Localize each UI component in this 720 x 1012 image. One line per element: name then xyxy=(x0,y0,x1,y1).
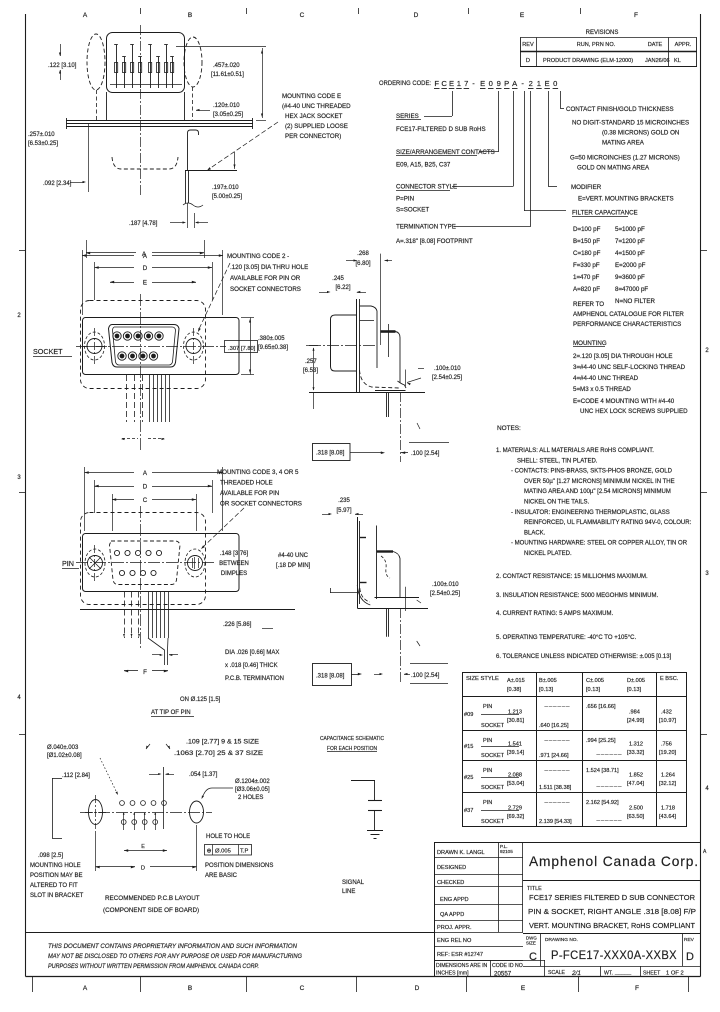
svg-text:20557: 20557 xyxy=(494,971,512,978)
svg-text:1.852: 1.852 xyxy=(629,773,643,779)
svg-text:C±.005: C±.005 xyxy=(586,678,604,684)
ground xyxy=(367,830,383,832)
svg-text:PURPOSES WITHOUT WRITTEN PERMI: PURPOSES WITHOUT WRITTEN PERMISSION FROM… xyxy=(48,963,259,970)
drawing number row xyxy=(540,934,542,967)
pin side bracket plate xyxy=(357,517,359,608)
svg-text:3: 3 xyxy=(705,571,709,577)
svg-text:1.264: 1.264 xyxy=(661,773,675,779)
svg-text:0: 0 xyxy=(489,79,493,88)
svg-text:SCALE: SCALE xyxy=(548,970,566,976)
svg-text:.054 [1.37]: .054 [1.37] xyxy=(189,772,218,778)
svg-text:PROJ. APPR.: PROJ. APPR. xyxy=(437,925,472,931)
svg-text:DIMPLES: DIMPLES xyxy=(221,571,247,577)
svg-text:KL: KL xyxy=(674,58,681,64)
svg-text:SHEET: SHEET xyxy=(643,971,661,977)
dim .100 2.54 socket side xyxy=(409,442,449,444)
svg-text:4: 4 xyxy=(17,695,21,701)
svg-text:B: B xyxy=(188,12,192,19)
svg-text:[47.04]: [47.04] xyxy=(627,781,645,787)
svg-text:.092 [2.34]: .092 [2.34] xyxy=(43,181,72,187)
svg-text:OR SOCKET CONNECTORS: OR SOCKET CONNECTORS xyxy=(220,501,302,508)
title block xyxy=(434,842,701,844)
svg-text:PIN: PIN xyxy=(483,704,492,710)
svg-text:MATING AREA: MATING AREA xyxy=(602,140,645,147)
pin bracket dashed outline xyxy=(81,513,206,605)
socket D-sub cutout xyxy=(109,325,180,368)
svg-text:S=SOCKET: S=SOCKET xyxy=(396,207,429,214)
svg-text:D: D xyxy=(141,866,145,872)
svg-text:SOCKET: SOCKET xyxy=(481,753,505,759)
svg-text:3=#4-40 UNC SELF-LOCKING THREA: 3=#4-40 UNC SELF-LOCKING THREAD xyxy=(573,364,686,371)
svg-text:MATING AREA AND 100µ" [2.54 MI: MATING AREA AND 100µ" [2.54 MICRONS] MIN… xyxy=(524,489,671,495)
svg-text:VERT. MOUNTING BRACKET, RoHS C: VERT. MOUNTING BRACKET, RoHS COMPLIANT xyxy=(529,921,695,930)
svg-text:NO DIGIT-STANDARD 15 MICROINCH: NO DIGIT-STANDARD 15 MICROINCHES xyxy=(572,120,689,127)
svg-text:[32.12]: [32.12] xyxy=(659,781,677,787)
svg-text:1: 1 xyxy=(457,79,461,88)
svg-text:SOCKET: SOCKET xyxy=(481,819,505,825)
svg-text:DIMENSIONS ARE IN: DIMENSIONS ARE IN xyxy=(436,963,488,969)
socket flange xyxy=(83,318,240,375)
pin side contact squiggle xyxy=(381,556,390,578)
pcb left bracket xyxy=(52,778,54,838)
svg-text:DRAWING NO.: DRAWING NO. xyxy=(545,937,578,943)
svg-text:[19.20]: [19.20] xyxy=(659,750,677,756)
dim E socket top xyxy=(110,282,134,284)
pins view1 xyxy=(116,45,118,88)
title block left column rows xyxy=(434,857,523,859)
svg-text:PIN & SOCKET, RIGHT ANGLE .318: PIN & SOCKET, RIGHT ANGLE .318 [8.08] F/… xyxy=(528,907,696,916)
svg-text:1.718: 1.718 xyxy=(661,806,675,812)
svg-text:F: F xyxy=(143,669,147,676)
svg-text:PRODUCT DRAWING (ELM-12000): PRODUCT DRAWING (ELM-12000) xyxy=(543,58,633,64)
note pcb termination pin xyxy=(160,654,163,656)
svg-text:[2.54±0.25]: [2.54±0.25] xyxy=(432,375,462,381)
svg-text:4: 4 xyxy=(705,786,709,792)
svg-text:SIZE/ARRANGEMENT CONTACTS: SIZE/ARRANGEMENT CONTACTS xyxy=(396,149,495,156)
svg-text:SOCKET: SOCKET xyxy=(33,347,63,356)
svg-text:#15: #15 xyxy=(464,744,473,750)
pin centerlines xyxy=(76,562,215,564)
wire to capacitor xyxy=(374,781,376,800)
svg-text:[0.38]: [0.38] xyxy=(507,687,521,693)
shell outline view1 xyxy=(107,33,185,93)
svg-text:Amphenol Canada Corp.: Amphenol Canada Corp. xyxy=(529,853,699,869)
svg-text:A: A xyxy=(83,985,88,992)
svg-text:[0.13]: [0.13] xyxy=(539,687,553,693)
svg-text:ON Ø.125 [1.5]: ON Ø.125 [1.5] xyxy=(180,697,221,703)
svg-text:E: E xyxy=(449,79,454,88)
dim D socket top xyxy=(94,262,96,300)
svg-text:5=1000 pF: 5=1000 pF xyxy=(615,226,645,233)
svg-text:REV: REV xyxy=(684,937,695,943)
svg-text:.257: .257 xyxy=(305,359,317,365)
pin mounting hole right xyxy=(188,556,203,571)
socket side shell xyxy=(360,306,378,368)
svg-text:E=VERT. MOUNTING BRACKETS: E=VERT. MOUNTING BRACKETS xyxy=(578,196,674,203)
svg-text:AT TIP OF PIN: AT TIP OF PIN xyxy=(151,710,191,716)
socket side foot xyxy=(360,370,400,388)
svg-text:LINE: LINE xyxy=(342,889,355,895)
svg-text:REF: ESR #12747: REF: ESR #12747 xyxy=(437,952,483,958)
svg-text:.1063 [2.70] 25 & 37 SIZE: .1063 [2.70] 25 & 37 SIZE xyxy=(174,750,263,757)
flange plate edge view1 xyxy=(66,120,253,122)
svg-text:[39.14]: [39.14] xyxy=(507,750,525,756)
svg-text:7: 7 xyxy=(464,79,468,88)
socket side body xyxy=(331,315,358,371)
svg-text:2/1: 2/1 xyxy=(571,970,581,977)
svg-text:AMPHENOL CATALOGUE FOR FILTER: AMPHENOL CATALOGUE FOR FILTER xyxy=(573,311,684,318)
dim A pin top xyxy=(84,467,86,531)
svg-text:ENG REL NO: ENG REL NO xyxy=(437,938,472,944)
svg-text:HEX JACK SOCKET: HEX JACK SOCKET xyxy=(285,113,343,120)
svg-text:- INSULATOR: ENGINEERING THER: - INSULATOR: ENGINEERING THERMOPLASTIC, … xyxy=(511,510,670,516)
svg-text:9=3600 pF: 9=3600 pF xyxy=(615,274,645,281)
svg-text:2 HOLES: 2 HOLES xyxy=(238,795,263,801)
svg-text:P: P xyxy=(504,79,509,88)
socket mounting hole left xyxy=(87,339,102,354)
svg-text:MOUNTING: MOUNTING xyxy=(573,340,607,347)
svg-text:SIZE STYLE: SIZE STYLE xyxy=(466,676,499,682)
svg-text:DATE: DATE xyxy=(648,42,663,48)
svg-text:BETWEEN: BETWEEN xyxy=(219,561,249,567)
svg-text:[63.50]: [63.50] xyxy=(627,814,645,820)
svg-text:A: A xyxy=(143,253,148,260)
svg-text:.226 [5.86]: .226 [5.86] xyxy=(223,622,252,628)
svg-text:- CONTACTS: PINS-BRASS, SKTS-: - CONTACTS: PINS-BRASS, SKTS-PHOS BRONZE… xyxy=(511,469,673,475)
svg-text:DRAWN K. LANGL: DRAWN K. LANGL xyxy=(437,850,485,856)
svg-text:.120±.010: .120±.010 xyxy=(213,103,240,109)
svg-text:ALTERED TO FIT: ALTERED TO FIT xyxy=(30,883,78,889)
svg-text:.148 [3.76]: .148 [3.76] xyxy=(220,551,249,557)
svg-text:.994 [25.25]: .994 [25.25] xyxy=(586,738,616,744)
svg-text:OVER 50µ" [1.27 MICRONS] MINIM: OVER 50µ" [1.27 MICRONS] MINIMUM NICKEL … xyxy=(524,479,675,485)
pcb small holes top row xyxy=(120,801,125,806)
pin contacts bottom row xyxy=(119,570,124,575)
proprietary note box xyxy=(26,932,435,934)
svg-text:CONNECTOR STYLE: CONNECTOR STYLE xyxy=(396,184,457,191)
svg-text:[Ø1.02±0.08]: [Ø1.02±0.08] xyxy=(47,753,82,759)
svg-text:E: E xyxy=(141,844,145,850)
svg-text:[0.13]: [0.13] xyxy=(586,687,600,693)
svg-text:[10.97]: [10.97] xyxy=(659,718,677,724)
svg-text:[0.13]: [0.13] xyxy=(627,687,641,693)
svg-text:[11.61±0.51]: [11.61±0.51] xyxy=(211,72,244,78)
svg-text:4=#4-40 UNC THREAD: 4=#4-40 UNC THREAD xyxy=(573,375,639,382)
socket tails xyxy=(126,375,128,422)
svg-text:PIN: PIN xyxy=(483,738,492,744)
svg-text:D: D xyxy=(686,951,694,963)
svg-text:E09, A15, B25, C37: E09, A15, B25, C37 xyxy=(396,162,451,169)
dim .100 pin side bottom xyxy=(410,663,448,665)
svg-text:------: ------ xyxy=(544,704,570,710)
dim D pin top xyxy=(94,480,96,513)
svg-text:RUN, PRN NO.: RUN, PRN NO. xyxy=(577,42,616,48)
svg-text:.971 [24.66]: .971 [24.66] xyxy=(539,753,569,759)
socket contacts top row xyxy=(113,332,121,340)
svg-text:[2.54±0.25]: [2.54±0.25] xyxy=(430,591,460,597)
mounting bushing right (dashed) view1 xyxy=(184,37,202,87)
svg-text:FOR EACH POSITION: FOR EACH POSITION xyxy=(327,746,377,752)
mounting bushing left (dashed) view1 xyxy=(87,34,105,90)
svg-text:[24.99]: [24.99] xyxy=(627,718,645,724)
svg-text:PIN: PIN xyxy=(483,800,492,806)
svg-text:3: 3 xyxy=(17,475,21,481)
svg-text:2.088: 2.088 xyxy=(508,773,522,779)
wire signal xyxy=(351,780,375,782)
svg-text:REV: REV xyxy=(522,42,534,48)
svg-text:[5.00±0.25]: [5.00±0.25] xyxy=(212,194,242,200)
socket tail span arrows xyxy=(122,438,138,440)
pin side body front face xyxy=(376,526,378,600)
svg-text:PERFORMANCE CHARACTERISTICS: PERFORMANCE CHARACTERISTICS xyxy=(573,321,681,328)
svg-text:Ø.005: Ø.005 xyxy=(215,849,231,855)
socket side tails below pcb xyxy=(386,392,388,417)
svg-text:C: C xyxy=(300,12,305,19)
svg-text:ARE BASIC: ARE BASIC xyxy=(205,873,238,879)
svg-text:(0.38 MICRONS) GOLD ON: (0.38 MICRONS) GOLD ON xyxy=(602,130,679,137)
svg-text:C: C xyxy=(441,79,447,88)
dim .318 box pin side xyxy=(313,664,352,686)
pin side pcb line xyxy=(357,608,428,610)
title block bottom strip xyxy=(434,960,545,962)
socket contacts bottom row xyxy=(118,352,126,360)
svg-text:x .018 [0.46] THICK: x .018 [0.46] THICK xyxy=(225,663,278,669)
svg-text:0: 0 xyxy=(553,79,557,88)
svg-text:E BSC.: E BSC. xyxy=(660,676,679,682)
svg-text:CAPACITANCE SCHEMATIC: CAPACITANCE SCHEMATIC xyxy=(320,736,384,742)
svg-text:Ø.1204±.002: Ø.1204±.002 xyxy=(235,779,270,785)
svg-text:BLACK.: BLACK. xyxy=(524,530,546,536)
svg-text:POSITION DIMENSIONS: POSITION DIMENSIONS xyxy=(205,863,273,869)
svg-text:C: C xyxy=(529,951,537,963)
svg-text:[Ø3.06±0.05]: [Ø3.06±0.05] xyxy=(235,787,270,793)
svg-text:AVAILABLE FOR PIN OR: AVAILABLE FOR PIN OR xyxy=(230,275,301,282)
svg-text:C=180 pF: C=180 pF xyxy=(573,250,601,257)
svg-text:.257±.010: .257±.010 xyxy=(28,132,55,138)
svg-text:7=1200 pF: 7=1200 pF xyxy=(615,238,645,245)
svg-text:.112 [2.84]: .112 [2.84] xyxy=(62,773,90,779)
svg-text:E: E xyxy=(521,985,526,992)
svg-text:[9.65±0.38]: [9.65±0.38] xyxy=(258,345,288,351)
svg-text:UNC HEX LOCK SCREWS SUPPLIED: UNC HEX LOCK SCREWS SUPPLIED xyxy=(580,408,688,415)
size style dimension table xyxy=(463,672,687,674)
svg-text:Ø.040±.003: Ø.040±.003 xyxy=(47,745,79,751)
svg-text:2.729: 2.729 xyxy=(508,806,522,812)
svg-text:1.541: 1.541 xyxy=(508,742,522,748)
svg-text:C: C xyxy=(300,985,305,992)
svg-text:#09: #09 xyxy=(464,712,473,718)
pin side tails xyxy=(386,608,388,637)
svg-text:#4-40 UNC: #4-40 UNC xyxy=(278,553,309,559)
dashed body under flange view1 xyxy=(112,157,178,169)
svg-text:[3.05±0.25]: [3.05±0.25] xyxy=(213,112,243,118)
svg-text:E=2000 pF: E=2000 pF xyxy=(615,262,646,269)
svg-text:JAN26/06: JAN26/06 xyxy=(645,58,670,64)
socket side contact thick xyxy=(381,330,396,333)
svg-text:.100 [2.54]: .100 [2.54] xyxy=(411,673,440,679)
svg-text:POSITION MAY BE: POSITION MAY BE xyxy=(30,873,82,879)
capacitor C1 xyxy=(368,800,382,802)
svg-text:CODE ID NO: CODE ID NO xyxy=(492,963,523,969)
pin D-sub outline dashed xyxy=(110,541,181,585)
leader verticals ordering code xyxy=(452,91,454,116)
svg-text:.318 [8.08]: .318 [8.08] xyxy=(316,451,345,457)
pcb dim .054 xyxy=(163,767,165,829)
svg-text:-: - xyxy=(521,79,524,88)
pin side dimples xyxy=(360,537,366,539)
svg-text:.100 [2.54]: .100 [2.54] xyxy=(411,451,440,457)
svg-text:.640 [16.25]: .640 [16.25] xyxy=(539,723,569,729)
svg-text:REFER TO: REFER TO xyxy=(573,301,604,308)
svg-text:A: A xyxy=(83,12,88,19)
pin contacts top row xyxy=(114,550,119,555)
svg-text:.235: .235 xyxy=(338,498,350,504)
svg-text:3. INSULATION RESISTANCE: 5000: 3. INSULATION RESISTANCE: 5000 MEGOHMS M… xyxy=(496,593,658,599)
svg-text:THIS DOCUMENT CONTAINS PROPRIE: THIS DOCUMENT CONTAINS PROPRIETARY INFOR… xyxy=(48,943,298,950)
svg-text:MODIFIER: MODIFIER xyxy=(571,184,602,191)
svg-text:PIN: PIN xyxy=(62,559,74,568)
svg-text:MOUNTING HOLE: MOUNTING HOLE xyxy=(30,863,81,869)
svg-text:------: ------ xyxy=(544,738,570,744)
leader mounting code 3 4 5 xyxy=(203,508,244,547)
svg-text:2.139 [54.33]: 2.139 [54.33] xyxy=(539,819,572,825)
svg-text:F=330 pF: F=330 pF xyxy=(573,262,600,269)
ordering code underlines xyxy=(434,88,440,90)
svg-text:SERIES: SERIES xyxy=(396,113,419,120)
socket side bracket plate xyxy=(356,299,358,392)
svg-text:.984: .984 xyxy=(629,710,640,716)
pcb small holes bottom row xyxy=(121,820,126,825)
svg-text:.120 [3.05] DIA THRU HOLE: .120 [3.05] DIA THRU HOLE xyxy=(230,264,308,271)
svg-text:⊕: ⊕ xyxy=(207,849,212,855)
dim A view1 xyxy=(86,240,88,258)
svg-text:MOUNTING CODE 2 -: MOUNTING CODE 2 - xyxy=(227,253,289,260)
svg-text:D: D xyxy=(414,12,419,19)
svg-text:PIN: PIN xyxy=(483,768,492,774)
svg-text:F: F xyxy=(434,79,439,88)
svg-text:SOCKET CONNECTORS: SOCKET CONNECTORS xyxy=(230,286,301,293)
svg-text:ORDERING CODE:: ORDERING CODE: xyxy=(379,80,431,87)
extension line left view1 xyxy=(88,123,90,192)
svg-text:PER CONNECTOR): PER CONNECTOR) xyxy=(285,133,341,140)
svg-text:NOTES:: NOTES: xyxy=(497,425,521,432)
svg-text:[53.04]: [53.04] xyxy=(507,781,525,787)
svg-text:[6.53]: [6.53] xyxy=(303,368,318,374)
svg-text:.245: .245 xyxy=(332,276,344,282)
svg-text:T.P: T.P xyxy=(240,849,249,855)
boxed dim .307 socket xyxy=(225,341,258,353)
svg-text:E: E xyxy=(143,280,147,287)
svg-text:.100±.010: .100±.010 xyxy=(434,366,461,372)
svg-text:B±.005: B±.005 xyxy=(539,678,557,684)
svg-text:[30.81]: [30.81] xyxy=(507,718,525,724)
svg-text:E=CODE 4 MOUNTING WITH #4-40: E=CODE 4 MOUNTING WITH #4-40 xyxy=(573,398,675,405)
svg-text:P.C.B. TERMINATION: P.C.B. TERMINATION xyxy=(225,676,284,682)
socket mounting hole right xyxy=(186,339,201,354)
svg-text:[6.80]: [6.80] xyxy=(355,261,370,267)
svg-text:HOLE TO HOLE: HOLE TO HOLE xyxy=(206,834,250,840)
svg-text:C: C xyxy=(143,497,148,504)
svg-text:.100±.010: .100±.010 xyxy=(432,582,459,588)
socket side centerline xyxy=(309,345,377,347)
svg-text:1.511 [38.38]: 1.511 [38.38] xyxy=(539,785,572,791)
svg-text:CHECKED: CHECKED xyxy=(437,880,464,886)
svg-text:D: D xyxy=(143,484,148,491)
svg-text:CONTACT FINISH/GOLD THICKNESS: CONTACT FINISH/GOLD THICKNESS xyxy=(566,106,674,113)
svg-text:------: ------ xyxy=(544,800,570,806)
svg-text:MAY NOT BE DISCLOSED TO OTHERS: MAY NOT BE DISCLOSED TO OTHERS FOR ANY P… xyxy=(48,953,302,960)
pin pcb baseline xyxy=(80,609,295,611)
svg-text:2. CONTACT RESISTANCE: 15 MILL: 2. CONTACT RESISTANCE: 15 MILLIOHMS MAXI… xyxy=(496,574,648,580)
pcb big hole left xyxy=(89,800,103,825)
svg-text:1=470 pF: 1=470 pF xyxy=(573,274,600,281)
svg-text:2.162 [54.92]: 2.162 [54.92] xyxy=(586,800,619,806)
svg-text:- MOUNTING HARDWARE: STEEL OR: - MOUNTING HARDWARE: STEEL OR COPPER ALL… xyxy=(511,541,688,547)
svg-text:G=50 MICROINCHES (1.27 MICRONS: G=50 MICROINCHES (1.27 MICRONS) xyxy=(570,155,680,162)
pcb dim E xyxy=(124,850,167,852)
svg-text:[6.22]: [6.22] xyxy=(335,285,350,291)
svg-text:D: D xyxy=(143,265,148,272)
leader to bracket view1 xyxy=(209,122,278,169)
svg-text:5. OPERATING TEMPERATURE: -40°: 5. OPERATING TEMPERATURE: -40°C TO +105°… xyxy=(496,635,636,641)
svg-text:1.312: 1.312 xyxy=(629,742,643,748)
pcb dim D xyxy=(95,831,97,871)
dim C pin top xyxy=(112,494,114,531)
svg-text:REINFORCED, UL FLAMMABILITY RA: REINFORCED, UL FLAMMABILITY RATING 94V-0… xyxy=(524,520,692,526)
svg-text:SOCKET: SOCKET xyxy=(481,785,505,791)
socket bracket dashed outline xyxy=(81,301,206,389)
svg-text:A: A xyxy=(703,849,707,855)
svg-text:FCE17 SERIES FILTERED D SUB CO: FCE17 SERIES FILTERED D SUB CONNECTOR xyxy=(529,893,695,902)
svg-text:92105: 92105 xyxy=(500,849,513,854)
svg-text:1: 1 xyxy=(537,79,541,88)
socket side pcb line xyxy=(309,392,425,394)
svg-text:DIA .026 [0.66] MAX: DIA .026 [0.66] MAX xyxy=(225,650,279,656)
svg-text:.380±.005: .380±.005 xyxy=(258,336,285,342)
svg-text:8=47000 pF: 8=47000 pF xyxy=(615,286,648,293)
svg-text:MOUNTING CODE E: MOUNTING CODE E xyxy=(282,93,341,100)
svg-text:#25: #25 xyxy=(464,775,473,781)
pcb centerline xyxy=(80,812,212,814)
svg-text:INCHES [mm]: INCHES [mm] xyxy=(436,971,469,977)
svg-text:.318 [8.08]: .318 [8.08] xyxy=(316,674,345,680)
svg-text:A=.318" [8.08] FOOTPRINT: A=.318" [8.08] FOOTPRINT xyxy=(396,238,473,245)
svg-text:APPR.: APPR. xyxy=(675,42,692,48)
svg-text:------: ------ xyxy=(544,768,570,774)
svg-text:F: F xyxy=(634,12,638,19)
dim .380 right of socket xyxy=(241,317,254,319)
pin mounting hole left xyxy=(88,556,103,571)
svg-text:E: E xyxy=(480,79,485,88)
svg-text:#37: #37 xyxy=(464,808,473,814)
svg-text:4=1500 pF: 4=1500 pF xyxy=(615,250,645,257)
right angle bracket view1 xyxy=(188,130,199,170)
svg-text:A: A xyxy=(143,470,148,477)
svg-text:P=PIN: P=PIN xyxy=(396,196,414,203)
pin side shell xyxy=(377,550,393,552)
dim A socket top xyxy=(82,250,84,315)
svg-text:2: 2 xyxy=(529,79,533,88)
svg-text:1.524 [38.71]: 1.524 [38.71] xyxy=(586,768,619,774)
svg-text:SOCKET: SOCKET xyxy=(481,723,505,729)
svg-text:QA APPD: QA APPD xyxy=(440,912,464,918)
svg-text:A±.015: A±.015 xyxy=(507,678,525,684)
svg-text:D±.005: D±.005 xyxy=(627,678,645,684)
svg-text:AVAILABLE FOR PIN: AVAILABLE FOR PIN xyxy=(220,490,279,497)
svg-text:E: E xyxy=(545,79,550,88)
svg-text:(2) SUPPLIED LOOSE: (2) SUPPLIED LOOSE xyxy=(285,123,348,130)
centerline view1 xyxy=(140,25,142,196)
